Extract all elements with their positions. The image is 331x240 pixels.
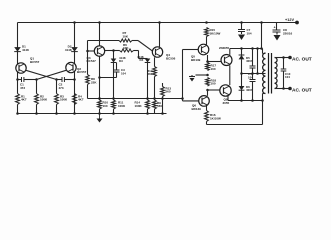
svg-text:AC. OUT: AC. OUT — [292, 56, 312, 62]
svg-text:100K: 100K — [60, 98, 68, 102]
svg-text:100: 100 — [103, 104, 108, 108]
svg-text:104: 104 — [121, 71, 126, 75]
svg-text:4K7: 4K7 — [21, 98, 27, 102]
svg-text:4007: 4007 — [246, 88, 253, 92]
svg-text:560: 560 — [166, 90, 171, 94]
svg-text:+: + — [274, 26, 276, 30]
svg-text:473: 473 — [59, 86, 64, 90]
svg-text:BC556: BC556 — [166, 56, 176, 60]
svg-text:22K: 22K — [91, 80, 97, 84]
svg-text:10K: 10K — [123, 46, 129, 50]
svg-text:560: 560 — [147, 72, 152, 76]
svg-text:104: 104 — [247, 32, 252, 36]
svg-text:D4: D4 — [140, 58, 144, 62]
svg-text:1K/10W: 1K/10W — [210, 32, 221, 36]
svg-text:100K: 100K — [40, 98, 48, 102]
svg-text:4148: 4148 — [22, 48, 29, 52]
svg-text:560: 560 — [157, 104, 162, 108]
svg-text:D3: D3 — [119, 59, 123, 63]
svg-text:BC557: BC557 — [30, 60, 40, 64]
svg-text:4148: 4148 — [65, 48, 72, 52]
svg-text:100: 100 — [211, 82, 216, 86]
svg-text:BD139: BD139 — [192, 107, 202, 111]
svg-text:473: 473 — [20, 86, 25, 90]
svg-text:4007: 4007 — [246, 59, 253, 63]
svg-text:100K: 100K — [118, 104, 126, 108]
svg-text:1K/10W: 1K/10W — [210, 117, 221, 121]
svg-text:AC. OUT: AC. OUT — [292, 87, 312, 93]
svg-text:2N3055: 2N3055 — [219, 46, 230, 50]
svg-text:100K: 100K — [135, 104, 143, 108]
svg-text:BC557: BC557 — [77, 70, 87, 74]
svg-text:+12V: +12V — [285, 18, 294, 22]
svg-text:4K7: 4K7 — [78, 98, 84, 102]
svg-text:BD139: BD139 — [191, 58, 201, 62]
svg-text:10K: 10K — [123, 35, 129, 39]
svg-text:100: 100 — [211, 67, 216, 71]
svg-text:104: 104 — [285, 75, 290, 79]
svg-text:220/16: 220/16 — [283, 32, 293, 36]
svg-text:3055: 3055 — [223, 101, 230, 105]
